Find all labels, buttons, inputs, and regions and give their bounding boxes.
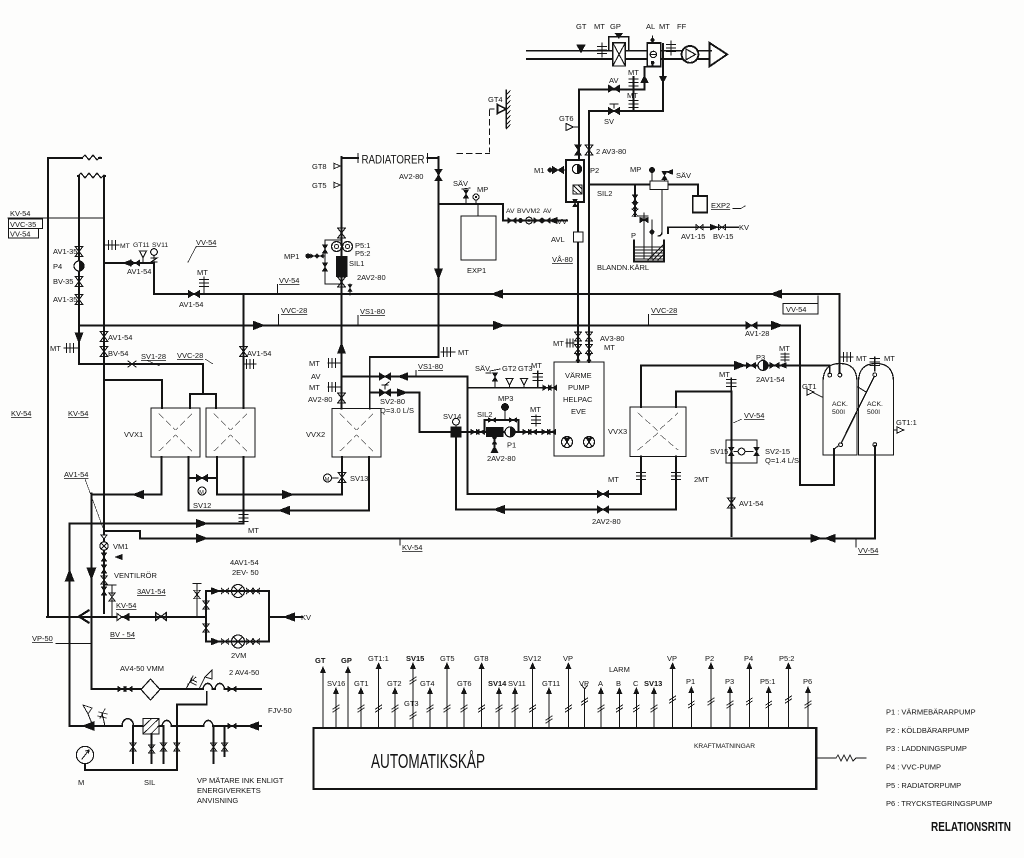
svg-text:P: P (631, 231, 636, 240)
svg-text:LARM: LARM (609, 665, 630, 674)
svg-text:SV13: SV13 (350, 474, 368, 483)
svg-text:VV-54: VV-54 (279, 276, 299, 285)
svg-text:AV2-80: AV2-80 (399, 172, 423, 181)
svg-text:AV: AV (311, 372, 320, 381)
svg-text:BV-15: BV-15 (713, 232, 733, 241)
svg-text:VP MÄTARE INK ENLIGT: VP MÄTARE INK ENLIGT (197, 776, 284, 785)
svg-text:MP: MP (630, 165, 641, 174)
svg-text:SV12: SV12 (193, 501, 211, 510)
svg-text:SIL1: SIL1 (349, 259, 364, 268)
svg-text:GT11: GT11 (542, 679, 560, 688)
svg-text:GT5: GT5 (312, 181, 327, 190)
svg-text:MT: MT (309, 383, 320, 392)
svg-text:M1: M1 (534, 166, 544, 175)
svg-text:MT: MT (659, 22, 670, 31)
svg-text:AVL: AVL (551, 235, 565, 244)
svg-text:P2: P2 (590, 166, 599, 175)
svg-text:MT: MT (530, 405, 541, 414)
svg-text:BV-54: BV-54 (108, 349, 128, 358)
svg-text:P5:2: P5:2 (355, 249, 370, 258)
svg-text:MT: MT (604, 343, 615, 352)
svg-text:MT: MT (779, 344, 790, 353)
svg-text:MT: MT (553, 339, 564, 348)
svg-text:AUTOMATIKSKÅP: AUTOMATIKSKÅP (371, 750, 485, 773)
svg-text:SÄV: SÄV (453, 179, 468, 188)
svg-text:GT1: GT1 (802, 382, 817, 391)
svg-text:P3: P3 (756, 353, 765, 362)
svg-text:2MT: 2MT (694, 475, 709, 484)
svg-text:SV16: SV16 (327, 679, 345, 688)
svg-text:GT6: GT6 (559, 114, 574, 123)
svg-text:FJV-50: FJV-50 (268, 706, 292, 715)
svg-text:2AV2-80: 2AV2-80 (592, 517, 621, 526)
svg-text:BLANDN.KÄRL: BLANDN.KÄRL (597, 263, 649, 272)
svg-text:MT: MT (309, 359, 320, 368)
svg-text:AV1-54: AV1-54 (739, 499, 763, 508)
svg-text:MT: MT (120, 243, 130, 250)
svg-text:VM1: VM1 (113, 542, 128, 551)
svg-text:500l: 500l (832, 409, 845, 416)
svg-text:GT6: GT6 (457, 679, 472, 688)
svg-text:AV3-80: AV3-80 (600, 334, 624, 343)
svg-text:AV1-54: AV1-54 (127, 267, 151, 276)
svg-text:GP: GP (341, 656, 352, 665)
svg-text:VVX2: VVX2 (306, 430, 325, 439)
svg-text:VVX1: VVX1 (124, 430, 143, 439)
svg-text:KV-54: KV-54 (10, 209, 30, 218)
svg-text:2VM: 2VM (231, 651, 246, 660)
svg-text:GT8: GT8 (474, 654, 489, 663)
svg-text:P1: P1 (686, 677, 695, 686)
svg-text:EXP2: EXP2 (711, 201, 730, 210)
svg-text:AL: AL (646, 22, 655, 31)
svg-text:HELPAC: HELPAC (563, 395, 593, 404)
svg-text:P1: P1 (507, 441, 516, 450)
svg-text:SV14: SV14 (488, 679, 507, 688)
svg-text:MT: MT (627, 91, 638, 100)
svg-text:SV14: SV14 (443, 412, 461, 421)
svg-text:PUMP: PUMP (568, 383, 590, 392)
svg-text:EXP1: EXP1 (467, 266, 486, 275)
svg-text:SV2-80: SV2-80 (380, 397, 405, 406)
svg-text:SV15: SV15 (710, 447, 728, 456)
svg-text:P5:2: P5:2 (779, 654, 794, 663)
svg-text:4AV1-54: 4AV1-54 (230, 558, 259, 567)
svg-text:AV2-80: AV2-80 (308, 395, 332, 404)
svg-text:VV-54: VV-54 (858, 546, 878, 555)
svg-text:AV1-28: AV1-28 (745, 329, 769, 338)
svg-text:VVC-35: VVC-35 (10, 220, 36, 229)
svg-text:GT11: GT11 (133, 242, 150, 249)
svg-text:VV-54: VV-54 (744, 411, 764, 420)
svg-text:KV-54: KV-54 (11, 409, 31, 418)
svg-text:GT: GT (576, 22, 587, 31)
svg-text:GT4: GT4 (488, 95, 503, 104)
svg-text:VV: VV (557, 217, 567, 226)
svg-text:P4: P4 (744, 654, 753, 663)
svg-text:VV-54: VV-54 (196, 238, 216, 247)
svg-text:AV: AV (506, 208, 515, 215)
svg-text:P3: P3 (725, 677, 734, 686)
svg-text:GT1:1: GT1:1 (368, 654, 389, 663)
svg-text:P1 : VÄRMEBÄRARPUMP: P1 : VÄRMEBÄRARPUMP (886, 708, 976, 717)
svg-text:GT1: GT1 (354, 679, 369, 688)
svg-text:P3 : LADDNINGSPUMP: P3 : LADDNINGSPUMP (886, 744, 967, 753)
svg-text:A: A (598, 679, 603, 688)
svg-text:KV-54: KV-54 (116, 601, 136, 610)
svg-text:SV: SV (604, 117, 614, 126)
svg-text:KV-54: KV-54 (68, 409, 88, 418)
svg-text:Q=3.0 L/S: Q=3.0 L/S (380, 406, 414, 415)
svg-text:EVE: EVE (571, 407, 586, 416)
svg-text:GP: GP (610, 22, 621, 31)
svg-text:VM2: VM2 (526, 208, 540, 215)
svg-text:RELATIONSRITN: RELATIONSRITN (931, 819, 1011, 834)
svg-text:VS1-80: VS1-80 (418, 362, 443, 371)
svg-text:GT3: GT3 (404, 699, 419, 708)
svg-text:3AV1-54: 3AV1-54 (137, 587, 166, 596)
svg-text:VP: VP (579, 679, 589, 688)
svg-text:VV-54: VV-54 (10, 230, 30, 239)
svg-text:SV11: SV11 (508, 679, 526, 688)
svg-text:MT: MT (628, 68, 639, 77)
svg-text:AV1-35: AV1-35 (53, 247, 77, 256)
svg-text:C: C (633, 679, 639, 688)
svg-text:VP: VP (667, 654, 677, 663)
svg-text:SV13: SV13 (644, 679, 662, 688)
svg-text:GT1:1: GT1:1 (896, 418, 917, 427)
svg-text:2EV- 50: 2EV- 50 (232, 568, 259, 577)
svg-text:VV-54: VV-54 (786, 305, 806, 314)
svg-text:P4 : VVC-PUMP: P4 : VVC-PUMP (886, 763, 941, 772)
svg-text:VVC-28: VVC-28 (281, 306, 307, 315)
svg-text:GT5: GT5 (440, 654, 455, 663)
svg-text:KV-54: KV-54 (402, 543, 422, 552)
svg-text:2 AV3-80: 2 AV3-80 (596, 147, 626, 156)
svg-text:VENTILRÖR: VENTILRÖR (114, 571, 158, 580)
svg-text:MT: MT (719, 370, 730, 379)
svg-text:MT: MT (248, 526, 259, 535)
svg-text:BV - 54: BV - 54 (110, 630, 135, 639)
svg-text:500l: 500l (867, 409, 880, 416)
svg-text:VÅ-80: VÅ-80 (552, 255, 573, 264)
svg-text:SV15: SV15 (406, 654, 424, 663)
svg-text:MT: MT (531, 361, 542, 370)
svg-text:VP: VP (563, 654, 573, 663)
svg-text:AV4-50 VMM: AV4-50 VMM (120, 664, 164, 673)
svg-text:AV1-35: AV1-35 (53, 295, 77, 304)
svg-text:MT: MT (50, 344, 61, 353)
svg-text:P5:1: P5:1 (760, 677, 775, 686)
svg-text:VVC-28: VVC-28 (651, 306, 677, 315)
svg-text:FF: FF (677, 22, 687, 31)
svg-text:P6: P6 (803, 677, 812, 686)
svg-text:ACK.: ACK. (832, 401, 848, 408)
svg-text:VP-50: VP-50 (32, 634, 53, 643)
svg-text:SV1-28: SV1-28 (141, 352, 166, 361)
svg-text:SIL2: SIL2 (597, 189, 612, 198)
svg-text:KV: KV (739, 223, 749, 232)
svg-text:AV1-54: AV1-54 (64, 470, 88, 479)
svg-text:2 AV4-50: 2 AV4-50 (229, 668, 259, 677)
svg-text:KV: KV (301, 613, 311, 622)
svg-text:GT2: GT2 (502, 364, 517, 373)
svg-text:ANVISNING: ANVISNING (197, 796, 238, 805)
svg-text:2AV2-80: 2AV2-80 (487, 454, 516, 463)
svg-text:M: M (199, 490, 204, 496)
svg-text:P4: P4 (53, 262, 62, 271)
svg-text:AV1-15: AV1-15 (681, 232, 705, 241)
svg-text:ENERGIVERKETS: ENERGIVERKETS (197, 786, 261, 795)
svg-text:AV1-54: AV1-54 (179, 300, 203, 309)
svg-text:M: M (78, 778, 84, 787)
svg-text:GT8: GT8 (312, 162, 327, 171)
svg-text:RADIATORER: RADIATORER (362, 155, 425, 167)
svg-text:P2: P2 (705, 654, 714, 663)
svg-text:GT4: GT4 (420, 679, 435, 688)
svg-text:SV2-15: SV2-15 (765, 447, 790, 456)
svg-text:MT: MT (856, 354, 867, 363)
svg-text:P6 : TRYCKSTEGRINGSPUMP: P6 : TRYCKSTEGRINGSPUMP (886, 799, 992, 808)
svg-text:AV: AV (543, 208, 552, 215)
svg-text:VS1-80: VS1-80 (360, 307, 385, 316)
svg-text:MT: MT (197, 268, 208, 277)
svg-text:M: M (325, 477, 330, 483)
svg-text:VVC-28: VVC-28 (177, 351, 203, 360)
svg-text:MP3: MP3 (498, 394, 513, 403)
svg-text:MP: MP (477, 185, 488, 194)
svg-text:MT: MT (884, 354, 895, 363)
svg-text:GT: GT (315, 656, 326, 665)
svg-text:SIL2: SIL2 (477, 410, 492, 419)
svg-text:AV1-54: AV1-54 (247, 349, 271, 358)
svg-text:SV12: SV12 (523, 654, 541, 663)
svg-text:SÄV: SÄV (676, 171, 691, 180)
svg-text:SÄV: SÄV (475, 364, 490, 373)
svg-text:GT2: GT2 (387, 679, 402, 688)
svg-text:2AV1-54: 2AV1-54 (756, 375, 785, 384)
svg-text:P2 : KÖLDBÄRARPUMP: P2 : KÖLDBÄRARPUMP (886, 726, 969, 735)
svg-text:VVX3: VVX3 (608, 427, 627, 436)
svg-text:MT: MT (458, 348, 469, 357)
svg-text:VÄRME: VÄRME (565, 371, 592, 380)
svg-text:MT: MT (594, 22, 605, 31)
svg-text:Q=1.4 L/S: Q=1.4 L/S (765, 456, 799, 465)
svg-text:2AV2-80: 2AV2-80 (357, 273, 386, 282)
svg-text:SV11: SV11 (152, 242, 168, 249)
svg-text:ACK.: ACK. (867, 401, 883, 408)
svg-text:BV-35: BV-35 (53, 277, 73, 286)
svg-text:P5 : RADIATORPUMP: P5 : RADIATORPUMP (886, 781, 961, 790)
svg-text:B: B (616, 679, 621, 688)
svg-text:MT: MT (608, 475, 619, 484)
svg-text:AV1-54: AV1-54 (108, 333, 132, 342)
svg-text:MP1: MP1 (284, 252, 299, 261)
svg-text:SIL: SIL (144, 778, 155, 787)
svg-text:AV: AV (609, 76, 618, 85)
svg-text:KRAFTMATNINGAR: KRAFTMATNINGAR (694, 743, 755, 750)
